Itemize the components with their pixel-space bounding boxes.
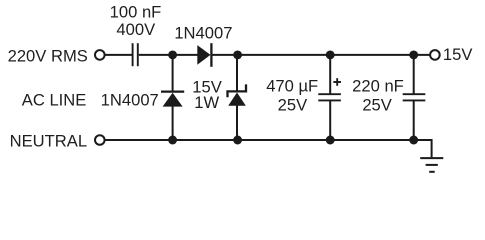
- svg-text:1W: 1W: [194, 93, 219, 112]
- svg-text:NEUTRAL: NEUTRAL: [10, 131, 87, 150]
- wire zener D3 to neutral: [236, 105, 238, 140]
- terminal output 15V: [430, 50, 440, 60]
- junction neutral under C3: [409, 136, 418, 145]
- wire input to C1: [105, 54, 132, 56]
- ground symbol: [420, 158, 443, 172]
- svg-text:100 nF: 100 nF: [110, 2, 162, 21]
- diode D2 1N4007 triangle: [163, 93, 183, 107]
- junction neutral under D2: [168, 136, 177, 145]
- junction node B top: [233, 50, 242, 59]
- junction node A top: [168, 50, 177, 59]
- wire neutral corner down to ground: [431, 139, 433, 157]
- wire node B down to zener D3: [236, 55, 238, 92]
- wire neutral rail: [105, 139, 432, 141]
- junction neutral under C2: [326, 136, 335, 145]
- svg-text:470 µF: 470 µF: [266, 76, 318, 95]
- wire node A down to D2: [172, 55, 174, 91]
- svg-text:220 nF: 220 nF: [352, 76, 404, 95]
- zener D3 cathode bar with hooks: [228, 84, 247, 97]
- wire D2 to neutral: [172, 106, 174, 140]
- diode D2 cathode bar: [161, 90, 184, 92]
- junction node D top: [409, 50, 418, 59]
- diode D1 cathode bar: [210, 43, 212, 67]
- svg-text:AC LINE: AC LINE: [22, 90, 87, 109]
- svg-text:1N4007: 1N4007: [101, 90, 159, 109]
- zener diode D3 triangle: [228, 93, 246, 106]
- junction neutral under D3: [233, 136, 242, 145]
- wire C3 to neutral: [413, 101, 415, 140]
- diode D1 1N4007 triangle: [197, 45, 210, 65]
- wire C1 to D1: [139, 54, 198, 56]
- capacitor C1 100nF plates: [133, 43, 138, 66]
- svg-text:1N4007: 1N4007: [174, 23, 232, 42]
- svg-text:220V RMS: 220V RMS: [8, 46, 88, 65]
- plus sign of C2 polarity: [333, 78, 341, 86]
- wire node C down to C2: [329, 55, 331, 94]
- capacitor C3 220nF plates: [403, 94, 426, 100]
- terminal 220V RMS input: [95, 50, 105, 60]
- wire C2 to neutral: [329, 101, 331, 140]
- svg-text:15V: 15V: [443, 45, 473, 64]
- wire node D down to C3: [413, 55, 415, 94]
- wire D1 to output terminal: [211, 54, 430, 56]
- svg-text:25V: 25V: [278, 95, 308, 114]
- junction node C top: [326, 50, 335, 59]
- svg-text:25V: 25V: [362, 95, 392, 114]
- capacitor C2 470uF plates: [318, 94, 341, 100]
- svg-text:400V: 400V: [116, 20, 155, 39]
- terminal neutral input: [95, 135, 105, 145]
